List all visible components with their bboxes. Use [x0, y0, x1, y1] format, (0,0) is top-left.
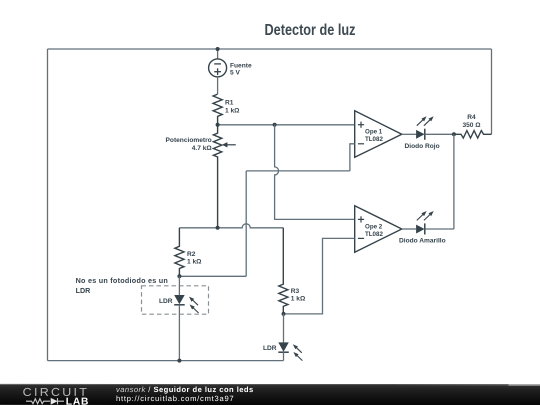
annotation No es un fotodiodo es un LDR [76, 276, 168, 295]
wire R2 bottom to inverting riser [179, 275, 246, 277]
resistor R1 [213, 94, 222, 125]
label Diodo Rojo [405, 143, 440, 150]
label Fuente 5 V [230, 63, 252, 77]
svg-text:5 V: 5 V [230, 70, 240, 77]
junction dot R1 bottom [216, 123, 220, 127]
logo resistor-diode glyph [26, 398, 64, 404]
dashed highlight box around LDR1 [142, 286, 209, 314]
svg-text:LDR: LDR [159, 298, 173, 305]
footer credit line [116, 386, 254, 394]
label Ope 2 TL082 [365, 223, 383, 238]
junction dot pot bottom [216, 226, 220, 230]
wire LED amarillo output riser (up to rojo/R4 node) [453, 134, 455, 229]
resistor R3 [279, 228, 288, 314]
junction dot LDR1 bottom [177, 359, 181, 363]
photodiode LDR2 [278, 314, 302, 361]
label LDR (left of LDR2) [263, 345, 277, 352]
svg-text:Diodo Amarillo: Diodo Amarillo [399, 238, 446, 245]
label LDR (left of LDR1) [159, 298, 173, 305]
svg-text:R3: R3 [291, 288, 300, 295]
label Ope 1 TL082 [365, 128, 383, 143]
svg-text:LDR: LDR [263, 345, 277, 352]
label Potenciometro 4.7 kOhm [166, 137, 213, 152]
wire top rail [48, 48, 492, 50]
svg-text:R1: R1 [225, 100, 234, 107]
wire inverting node riser (down to R2 bottom wire) [245, 171, 247, 276]
svg-text:Potenciometro: Potenciometro [166, 137, 212, 144]
svg-text:Ope 1: Ope 1 [365, 128, 383, 135]
junction dot R3 bottom [282, 312, 286, 316]
label R4 350 Ohm [462, 114, 481, 129]
svg-text:Detector de luz: Detector de luz [265, 22, 356, 39]
footer CircuitLab bar [0, 384, 540, 405]
svg-text:R2: R2 [187, 251, 196, 258]
svg-text:350 Ω: 350 Ω [462, 122, 481, 129]
wire op-amp2 inverting input to R3 node [284, 238, 355, 314]
svg-text:1 kΩ: 1 kΩ [187, 258, 202, 265]
LED D1 Diodo Rojo [402, 116, 454, 140]
op-amp U1 Ope 1 TL082 [355, 111, 402, 158]
svg-text:4.7 kΩ: 4.7 kΩ [192, 145, 213, 152]
op-amp U2 Ope 2 TL082 [355, 206, 402, 253]
wire right rail (top rail to R4) [491, 49, 493, 134]
svg-text:Diodo Rojo: Diodo Rojo [405, 143, 440, 150]
label R3 1 kOhm [291, 288, 306, 303]
wire left rail [47, 49, 49, 361]
svg-text:R4: R4 [467, 114, 476, 121]
junction dot node A riser [273, 123, 277, 127]
svg-text:Ope 2: Ope 2 [365, 223, 383, 230]
svg-text:No es un fotodiodo es un: No es un fotodiodo es un [76, 276, 168, 285]
title Detector de luz [265, 22, 356, 39]
wire bottom rail [48, 360, 284, 362]
junction dot at source/top rail [216, 47, 220, 51]
svg-text:1 kΩ: 1 kΩ [225, 108, 240, 115]
wire pot-bottom node horizontal (R2 top to R3 top) with hop over riser [179, 224, 283, 228]
wire node A riser (down to op-amp2 +) with hop over inverting wire [275, 125, 355, 220]
wire op-amp1 inverting input (corner down) [350, 144, 355, 171]
logo CIRCUIT wordmark [0, 385, 110, 405]
wire node A horizontal (R1 bottom to op-amp1 +) [218, 124, 355, 126]
photodiode LDR1 [174, 276, 198, 360]
svg-text:LDR: LDR [76, 286, 92, 295]
junction dot R2 bottom [177, 274, 181, 278]
svg-text:LAB: LAB [66, 397, 89, 405]
voltage source V1 Fuente 5V [209, 49, 227, 94]
svg-text:1 kΩ: 1 kΩ [291, 296, 306, 303]
svg-text:Fuente: Fuente [230, 63, 252, 70]
resistor R4 [454, 131, 492, 138]
junction dot LED rojo / R4 node [452, 132, 456, 136]
label Diodo Amarillo [399, 238, 446, 245]
footer url line [116, 395, 234, 403]
potentiometer P1 [213, 125, 235, 228]
resistor R2 [175, 228, 184, 276]
label R2 1 kOhm [187, 251, 202, 265]
svg-text:TL082: TL082 [365, 136, 383, 143]
LED D2 Diodo Amarillo [402, 211, 454, 235]
label R1 1 kOhm [225, 100, 240, 115]
svg-text:TL082: TL082 [365, 231, 383, 238]
wire inverting node horizontal [246, 170, 350, 172]
